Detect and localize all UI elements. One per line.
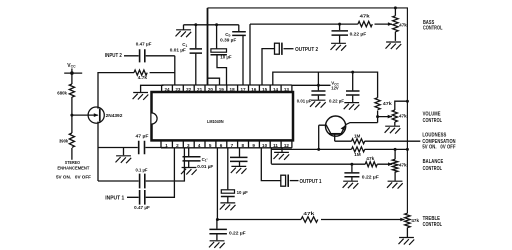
svg-text:0.01 µF: 0.01 µF — [197, 164, 213, 169]
svg-text:12V: 12V — [331, 86, 338, 91]
svg-text:10: 10 — [262, 143, 268, 148]
svg-text:47k: 47k — [366, 156, 375, 161]
svg-text:1M: 1M — [354, 133, 361, 138]
svg-text:4: 4 — [198, 143, 201, 148]
svg-text:5V ON. 0V OFF: 5V ON. 0V OFF — [422, 145, 455, 151]
svg-text:23: 23 — [175, 87, 181, 92]
svg-text:0.01 µF: 0.01 µF — [170, 47, 186, 52]
svg-text:TREBLE: TREBLE — [423, 216, 441, 222]
svg-text:47 µF: 47 µF — [136, 133, 149, 138]
svg-text:ENHANCEMENT: ENHANCEMENT — [57, 165, 89, 170]
svg-text:3: 3 — [187, 143, 190, 148]
svg-text:0.22 µF: 0.22 µF — [229, 230, 246, 235]
svg-text:VCC: VCC — [67, 63, 76, 69]
svg-text:20: 20 — [208, 87, 214, 92]
svg-text:5V ON. 0V OFF: 5V ON. 0V OFF — [56, 174, 91, 179]
svg-text:0.22 µF: 0.22 µF — [362, 174, 379, 179]
svg-text:17: 17 — [240, 87, 246, 92]
svg-text:47k: 47k — [303, 211, 315, 216]
svg-text:14: 14 — [273, 87, 279, 92]
svg-text:OUTPUT 2: OUTPUT 2 — [295, 47, 318, 53]
svg-text:21: 21 — [197, 87, 203, 92]
svg-text:CONTROL: CONTROL — [423, 26, 443, 32]
svg-text:BALANCE: BALANCE — [423, 159, 444, 165]
svg-text:47k: 47k — [411, 218, 419, 223]
svg-text:INPUT 2: INPUT 2 — [105, 53, 122, 59]
svg-text:0.22 µF: 0.22 µF — [350, 32, 367, 37]
svg-text:24: 24 — [164, 87, 170, 92]
svg-text:CONTROL: CONTROL — [423, 118, 443, 124]
svg-text:0.47 µF: 0.47 µF — [134, 205, 150, 210]
svg-text:390k: 390k — [59, 139, 69, 144]
svg-text:5: 5 — [209, 143, 212, 148]
svg-text:47k: 47k — [383, 101, 393, 106]
svg-text:1: 1 — [165, 143, 168, 148]
svg-text:22: 22 — [186, 87, 192, 92]
svg-text:1M: 1M — [354, 152, 361, 157]
svg-text:11: 11 — [273, 143, 278, 148]
svg-text:STEREO: STEREO — [65, 160, 81, 165]
svg-text:2N4392: 2N4392 — [106, 113, 123, 118]
svg-text:0.22 µF: 0.22 µF — [329, 98, 344, 103]
svg-text:47k: 47k — [399, 23, 407, 28]
svg-text:9: 9 — [252, 143, 255, 148]
svg-text:4.7k: 4.7k — [138, 75, 148, 80]
svg-text:7: 7 — [231, 143, 234, 148]
svg-text:0.01 µF: 0.01 µF — [297, 98, 312, 103]
svg-text:CONTROL: CONTROL — [423, 222, 443, 228]
svg-text:19: 19 — [219, 87, 225, 92]
svg-text:VOLUME: VOLUME — [423, 111, 441, 117]
svg-text:15: 15 — [262, 87, 268, 92]
svg-text:47k: 47k — [360, 13, 371, 18]
svg-text:LM1040N: LM1040N — [207, 119, 224, 124]
svg-text:LOUDNESS: LOUDNESS — [422, 132, 446, 138]
svg-text:CONTROL: CONTROL — [423, 166, 443, 172]
svg-text:8: 8 — [242, 143, 245, 148]
svg-text:6: 6 — [220, 143, 223, 148]
svg-text:16: 16 — [251, 87, 257, 92]
svg-text:10 µF: 10 µF — [220, 55, 232, 60]
svg-text:47k: 47k — [399, 113, 407, 118]
svg-text:680k: 680k — [57, 90, 67, 95]
svg-text:0.39 µF: 0.39 µF — [220, 38, 236, 43]
svg-text:12: 12 — [284, 143, 290, 148]
svg-text:2: 2 — [176, 143, 179, 148]
svg-text:0.1 µF: 0.1 µF — [136, 167, 148, 172]
svg-text:INPUT 1: INPUT 1 — [105, 195, 124, 201]
svg-text:13: 13 — [284, 87, 290, 92]
svg-text:C1': C1' — [202, 157, 208, 163]
svg-text:0.47 µF: 0.47 µF — [136, 42, 152, 47]
svg-text:10 µF: 10 µF — [237, 190, 249, 195]
svg-text:47k: 47k — [399, 162, 407, 167]
svg-text:18: 18 — [230, 87, 236, 92]
svg-text:OUTPUT 1: OUTPUT 1 — [300, 179, 322, 185]
